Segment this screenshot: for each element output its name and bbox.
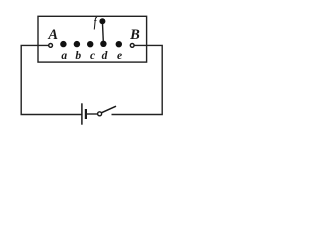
svg-text:e: e bbox=[117, 50, 122, 62]
svg-text:f: f bbox=[94, 16, 98, 31]
svg-text:B: B bbox=[129, 27, 140, 43]
svg-text:b: b bbox=[75, 50, 81, 62]
svg-text:d: d bbox=[102, 50, 108, 62]
svg-text:a: a bbox=[61, 50, 67, 62]
svg-text:c: c bbox=[90, 50, 95, 62]
svg-text:A: A bbox=[47, 27, 58, 43]
